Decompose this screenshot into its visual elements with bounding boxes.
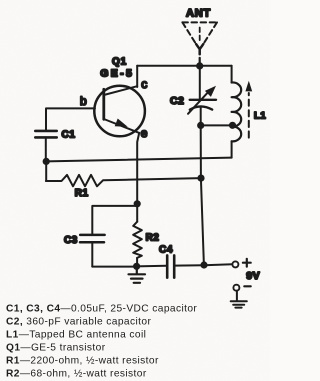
ground (main) [129, 266, 146, 283]
ground (battery) [231, 291, 247, 308]
node: tap-left junction dot [197, 122, 204, 129]
svg-text:C3: C3 [64, 235, 78, 246]
node: emitter junction dot [134, 200, 141, 207]
svg-text:b: b [80, 94, 87, 108]
capacitor C2 (variable) [188, 66, 216, 126]
svg-text:ANT: ANT [186, 7, 211, 19]
capacitor C1 [35, 131, 56, 138]
svg-text:C1: C1 [62, 129, 76, 140]
svg-text:Q1: Q1 [112, 57, 127, 68]
node: R2 bottom junction dot [133, 263, 140, 270]
wire: emitter drop [137, 133, 139, 204]
node: rail junction dot [200, 261, 207, 268]
wire: top rail from collector to coil [137, 65, 231, 67]
battery + terminal [232, 261, 238, 267]
svg-text:c: c [141, 77, 147, 91]
svg-text:R1: R1 [75, 188, 89, 199]
wire: C1 bottom lead [45, 137, 47, 161]
node: coil tap dot [229, 122, 236, 129]
svg-text:9V: 9V [246, 270, 260, 282]
label + [243, 259, 251, 267]
inductor L1 (tapped coil) [232, 66, 242, 158]
L1 direction arrow (dashed) [245, 81, 252, 138]
wire: base lead [46, 108, 95, 130]
resistor R1 [46, 162, 201, 187]
antenna ANT [182, 22, 217, 62]
node: antenna junction dot [196, 62, 203, 69]
svg-text:L1—Tapped BC antenna coil: L1—Tapped BC antenna coil [6, 330, 146, 341]
legend text [6, 304, 197, 380]
wire: tap vertical down to battery rail [201, 125, 204, 265]
label - [244, 285, 250, 287]
node: base junction dot [43, 158, 50, 165]
svg-text:R2: R2 [146, 232, 160, 243]
svg-text:C1, C3, C4—0.05uF, 25-VDC capa: C1, C3, C4—0.05uF, 25-VDC capacitor [6, 304, 197, 315]
svg-text:R1—2200-ohm, ½-watt resistor: R1—2200-ohm, ½-watt resistor [6, 356, 159, 367]
svg-text:GE-5: GE-5 [100, 68, 134, 80]
transistor Q1 [94, 86, 145, 137]
node: R1-tap junction dot [197, 175, 204, 182]
svg-text:Q1—GE-5 transistor: Q1—GE-5 transistor [6, 343, 106, 354]
wire: C4 to battery + terminal [174, 264, 232, 265]
wire: bottom rail to C4 [136, 265, 166, 268]
svg-text:C2, 360-pF variable capacitor: C2, 360-pF variable capacitor [6, 317, 151, 328]
svg-text:C4: C4 [159, 245, 173, 256]
wire: C3 bottom to R2 bottom [92, 266, 136, 268]
wire: base junction to coil bottom [46, 158, 231, 162]
battery - terminal [233, 285, 239, 291]
svg-text:C2: C2 [170, 95, 184, 107]
svg-text:L1: L1 [254, 110, 266, 121]
capacitor C4 [167, 255, 174, 277]
svg-text:R2—68-ohm, ½-watt resistor: R2—68-ohm, ½-watt resistor [6, 369, 147, 380]
capacitor C3 [80, 206, 137, 267]
wire: collector drop [136, 66, 138, 87]
resistor R2 [133, 204, 142, 266]
svg-text:e: e [141, 126, 148, 140]
wire: tap to C2 bottom [201, 124, 233, 126]
